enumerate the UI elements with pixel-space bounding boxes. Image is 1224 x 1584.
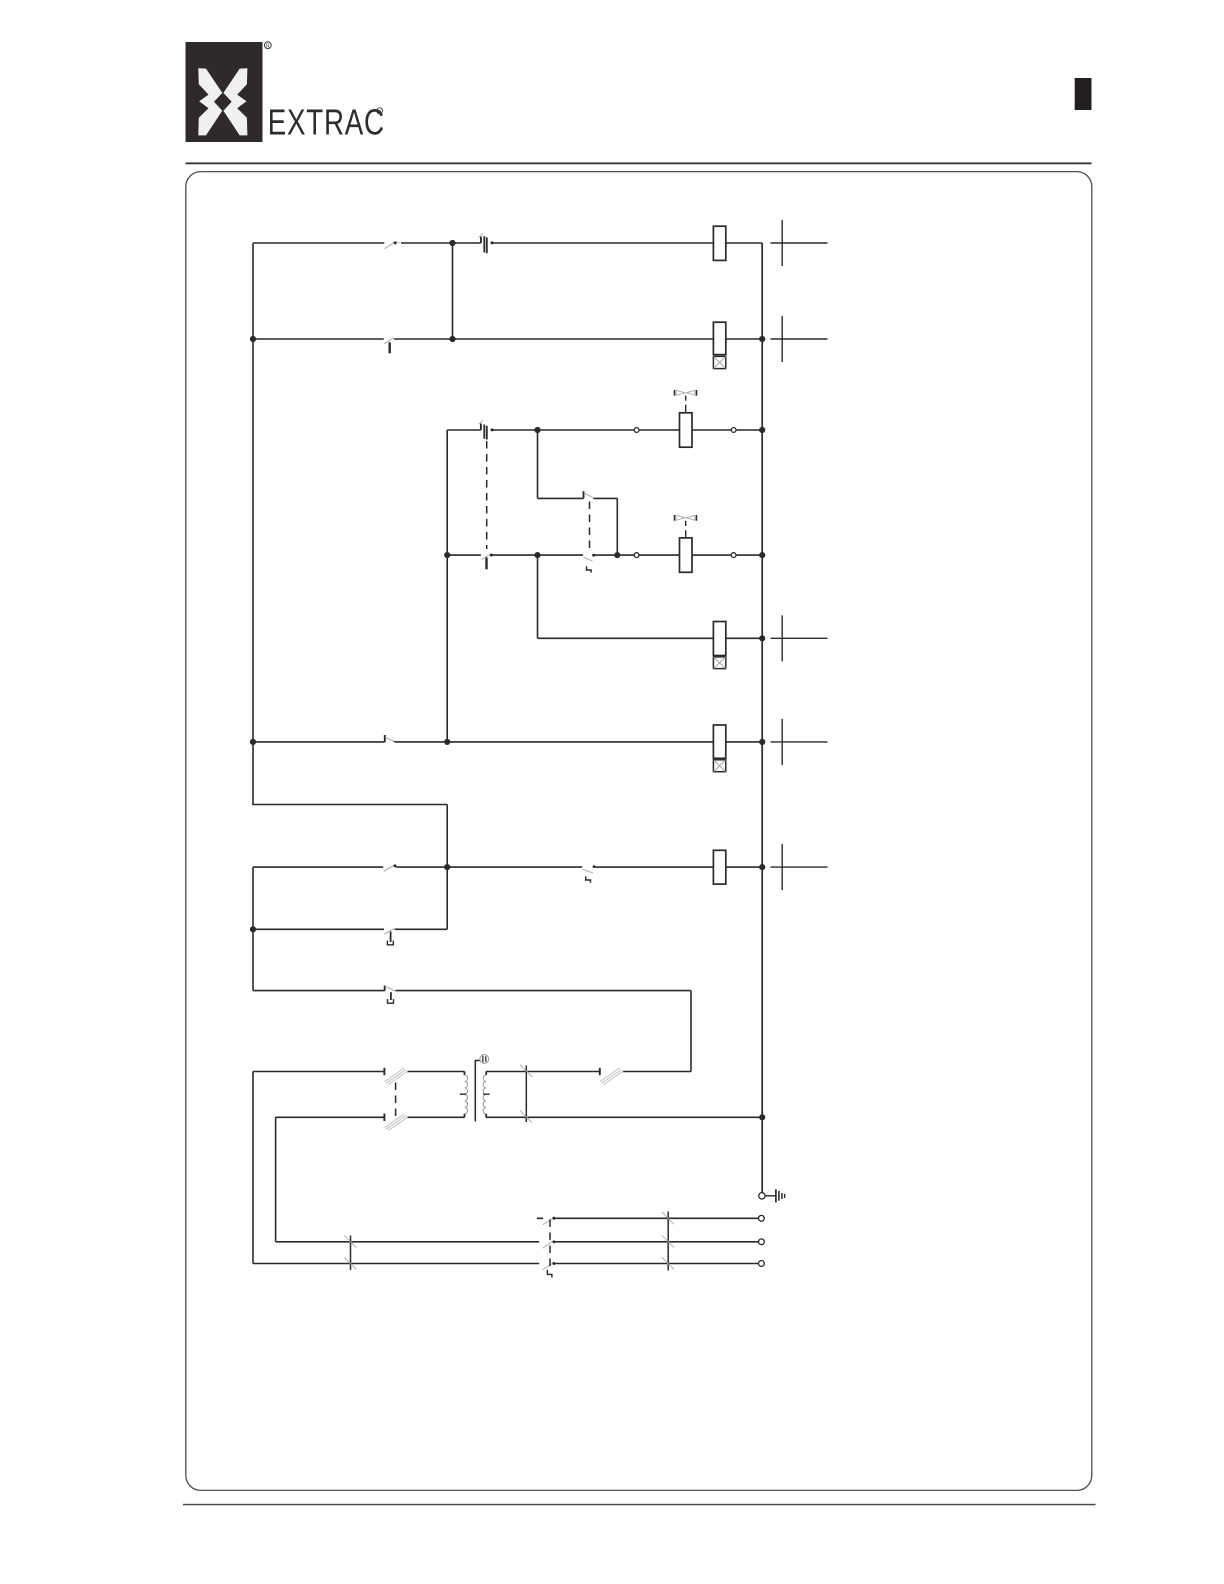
svg-text:EXTRAC: EXTRAC — [268, 102, 385, 143]
transformer T1 screen circle — [480, 1055, 489, 1064]
wire transformer primary top — [253, 1071, 465, 1073]
wire transformer secondary bottom — [486, 1116, 762, 1118]
wire mid riser — [446, 430, 448, 742]
wire left bus upper segment — [253, 243, 447, 805]
pilot circle Y1 right — [731, 428, 736, 433]
switch S6 rung6 — [384, 864, 397, 871]
footer rule — [183, 1504, 1096, 1506]
junction rung2 bus — [759, 336, 765, 342]
cable marker three phase — [662, 1212, 674, 1271]
contact K1a rung1 — [479, 233, 494, 253]
contact K3a rung3 — [479, 420, 494, 439]
main switch Q0 pole1 — [543, 1217, 555, 1225]
junction rung3 x537 — [534, 427, 540, 433]
pushbutton rung7 — [385, 985, 395, 1003]
wire mid riser lower — [446, 805, 448, 930]
transformer T1 primary winding — [465, 1072, 468, 1118]
junction rung2 x452 — [449, 336, 455, 342]
terminal circle L3 — [759, 1261, 765, 1267]
wire right bus — [761, 243, 763, 1193]
wire link rung1-rung2 — [452, 243, 454, 339]
wire rung 6b — [253, 928, 447, 930]
TRANSFORMER AND MAINS — [344, 1055, 784, 1278]
breaker Q1 mechanical link — [395, 1083, 397, 1117]
junction rung4 x447 — [444, 552, 450, 558]
lamp box K4 — [713, 760, 725, 772]
switch jog rung3b — [584, 491, 594, 498]
junction rung6 bus — [759, 864, 765, 870]
junction rung1 x452 — [449, 240, 455, 246]
actuator head Y2 — [675, 515, 697, 538]
logo square — [186, 42, 263, 142]
cable marker L2 L3 — [344, 1235, 356, 1270]
wire rung 5 — [253, 741, 762, 743]
pushbutton rung6b — [384, 929, 394, 945]
terminal circle L2 — [759, 1239, 765, 1245]
breaker Q1 pole2 — [384, 1114, 407, 1131]
wire rung 3 — [447, 429, 762, 431]
junction rung5 x253 — [250, 739, 256, 745]
wire transformer primary bottom — [276, 1116, 465, 1118]
wire jog rung 3b — [538, 497, 618, 499]
wire left bus mid segment — [252, 867, 254, 991]
terminal X5 rung6 — [771, 844, 828, 890]
valve solenoid Y2 — [680, 538, 693, 572]
terminal X3 rung4b — [771, 615, 828, 661]
wire rung 6 — [253, 866, 762, 868]
wire left bus lower segment — [252, 1072, 254, 1264]
terminal X4 rung5 — [771, 719, 828, 765]
switch S5 rung5 — [385, 735, 395, 742]
wire rung 2 — [253, 338, 762, 340]
logo registered mark — [264, 42, 271, 50]
svg-text:R: R — [266, 44, 270, 50]
relay coil K3 — [713, 622, 725, 656]
junction rung5 bus — [759, 739, 765, 745]
wordmark registered mark — [377, 108, 383, 115]
relay coil K2 — [713, 322, 725, 354]
terminal circle L1 — [759, 1215, 765, 1221]
wire phase L2 — [276, 1241, 759, 1243]
wire rung 4 — [447, 554, 762, 556]
lamp box K3 — [713, 657, 725, 669]
pilot circle Y2 left — [634, 553, 639, 558]
junction rung3 bus — [759, 427, 765, 433]
wire phase L1 — [537, 1217, 759, 1219]
relay coil K5 — [713, 850, 725, 884]
junction rung6b x253 — [250, 926, 256, 932]
limit switch rung4 with hook — [584, 554, 595, 573]
header rule — [186, 162, 1092, 164]
relay coil K4 — [713, 725, 725, 758]
relay coil K1 — [713, 226, 725, 260]
breaker Q1 pole1 — [384, 1068, 407, 1085]
switch S1 rung1 — [385, 241, 401, 248]
junction rung4 x617 — [614, 552, 620, 558]
mechanical link dashed rung3-rung4 — [486, 441, 488, 549]
pilot circle Y2 right — [731, 553, 736, 558]
wire phase L3 — [253, 1263, 759, 1265]
wire riser rung4 to rung4b — [537, 555, 539, 638]
COMPONENTS — [384, 220, 828, 1003]
wire jog down riser — [616, 498, 618, 555]
junction rung2 x253 — [250, 336, 256, 342]
transformer T1 primary tap — [460, 1093, 466, 1095]
breaker Q2 secondary — [600, 1068, 624, 1085]
earth ground PE — [759, 1189, 785, 1202]
schematic frame — [186, 172, 1092, 1491]
main switch Q0 link — [547, 1220, 552, 1278]
wire rung 7 — [253, 990, 691, 992]
logo X emblem — [198, 68, 247, 135]
main switch Q0 pole2 — [543, 1240, 556, 1248]
lamp box K2 — [713, 356, 725, 368]
wire transformer primary return riser — [275, 1117, 277, 1242]
wire riser rung3 to jog — [537, 430, 539, 498]
JUNCTION DOTS — [250, 240, 765, 1121]
wire rung 4b — [538, 637, 763, 639]
actuator head Y1 — [675, 390, 697, 413]
EXTRAC wordmark — [268, 102, 385, 143]
wire rung 1 — [253, 242, 762, 244]
junction rung6 x447 — [444, 864, 450, 870]
transformer T1 secondary winding — [483, 1072, 486, 1118]
limit switch rung6 with hook — [583, 865, 596, 883]
cable marker secondary — [520, 1065, 533, 1123]
contact K4a rung4 NC — [481, 554, 493, 570]
mechanical link dashed jog-rung4 — [589, 502, 591, 554]
main switch Q0 pole3 — [543, 1262, 556, 1270]
terminal X2 rung2 — [771, 316, 828, 362]
junction rung5 x447 — [444, 739, 450, 745]
wire transformer secondary top — [486, 1071, 691, 1073]
svg-text:R: R — [378, 109, 382, 115]
terminal X1 rung1 — [771, 220, 828, 266]
transformer T1 secondary tap — [483, 1093, 489, 1095]
pilot circle Y1 left — [634, 428, 639, 433]
junction rung4 bus — [759, 552, 765, 558]
junction secondary bus — [759, 1114, 765, 1120]
transformer T1 core and screen — [475, 1061, 480, 1122]
page tab black rectangle — [1075, 78, 1092, 110]
junction rung4 x537 — [534, 552, 540, 558]
wire rung7 riser to transformer — [690, 991, 692, 1072]
junction rung4b bus — [759, 635, 765, 641]
contact S2 rung2 — [384, 338, 394, 354]
valve solenoid Y1 — [680, 413, 693, 447]
